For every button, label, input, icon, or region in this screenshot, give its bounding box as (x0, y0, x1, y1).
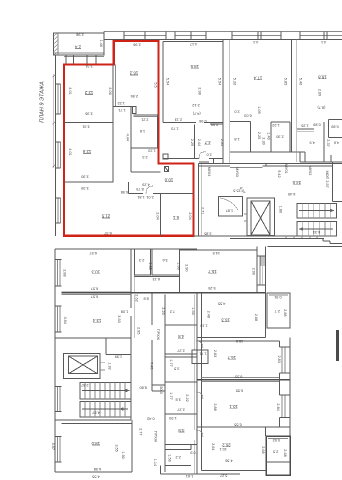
balcony 2.7 (267, 293, 290, 328)
svg-text:2.48: 2.48 (206, 311, 210, 318)
svg-text:4.1: 4.1 (321, 40, 326, 44)
svg-text:1.8: 1.8 (234, 137, 239, 141)
svg-text:МОП 2.57: МОП 2.57 (325, 170, 329, 187)
svg-text:ПРХЖ: ПРХЖ (153, 431, 157, 443)
svg-text:2.21: 2.21 (141, 118, 148, 122)
right facade lower (289, 338, 291, 437)
bottom wall (202, 470, 266, 472)
svg-text:2.27: 2.27 (177, 407, 184, 411)
svg-text:3.39: 3.39 (81, 186, 88, 190)
balcony top-left (54, 33, 105, 55)
svg-text:0.52: 0.52 (273, 438, 280, 442)
wall above room 18.0 (55, 419, 131, 421)
svg-text:(8.7): (8.7) (317, 106, 326, 110)
svg-text:3.6: 3.6 (162, 258, 167, 262)
bottom middle room labels (121, 294, 196, 477)
apartment 17.4 labels (232, 40, 287, 145)
svg-text:6.45: 6.45 (288, 192, 295, 196)
svg-text:8.80: 8.80 (140, 385, 147, 389)
svg-text:2.68: 2.68 (283, 449, 287, 456)
svg-text:1.56: 1.56 (168, 454, 172, 461)
svg-text:1.86: 1.86 (279, 206, 283, 213)
svg-text:1.55: 1.55 (191, 307, 195, 314)
svg-text:3.30: 3.30 (81, 174, 88, 178)
wall below 13.4 (55, 337, 131, 339)
balcony 2.5 bottom (266, 436, 290, 475)
svg-text:3.31: 3.31 (85, 64, 92, 68)
svg-text:1.22: 1.22 (272, 123, 279, 127)
svg-text:2.23: 2.23 (161, 307, 165, 314)
svg-text:2.98: 2.98 (76, 33, 83, 37)
room18.5 bottom wall (163, 122, 196, 124)
svg-text:50.3: 50.3 (159, 386, 163, 393)
hall top wall (113, 106, 133, 108)
red apartment outline (64, 41, 194, 236)
room 15.7 (208, 246, 266, 292)
svg-text:4.01: 4.01 (68, 148, 72, 155)
svg-text:6.58: 6.58 (94, 467, 101, 471)
bathroom column walls (130, 107, 132, 173)
wall 10.1/26.2 (197, 426, 290, 428)
svg-text:1.14: 1.14 (153, 459, 157, 466)
corridor walls (194, 159, 342, 236)
elevator bottom-half (64, 338, 131, 379)
kitchen 4.7 walls (194, 125, 196, 159)
svg-text:8.8: 8.8 (143, 297, 148, 301)
svg-text:2.5: 2.5 (273, 449, 278, 453)
svg-text:3.54: 3.54 (63, 317, 67, 324)
svg-text:3.53: 3.53 (117, 315, 121, 322)
svg-text:4.17: 4.17 (190, 42, 197, 46)
svg-text:6.03: 6.03 (244, 113, 251, 117)
svg-text:5.46: 5.46 (299, 78, 303, 85)
svg-text:2.83: 2.83 (277, 356, 281, 363)
apartment 18.8 walls (297, 120, 342, 162)
svg-text:7.49: 7.49 (150, 362, 154, 369)
svg-text:2.84: 2.84 (276, 403, 280, 410)
right facade upper (265, 293, 267, 338)
svg-text:2.62: 2.62 (134, 294, 138, 301)
svg-text:2.35: 2.35 (220, 139, 224, 146)
svg-text:2.04: 2.04 (188, 212, 192, 219)
svg-text:4.55: 4.55 (218, 302, 225, 306)
svg-text:2.68: 2.68 (283, 309, 287, 316)
windows right facade (281, 347, 283, 373)
apartment 17.4 walls (230, 40, 305, 163)
storage room 1.87 (200, 186, 245, 235)
svg-text:6.57: 6.57 (91, 294, 98, 298)
inter-apartment wall bottom left (55, 249, 266, 472)
svg-text:1.77: 1.77 (169, 392, 173, 399)
svg-text:4.6: 4.6 (334, 141, 339, 145)
svg-text:0.89: 0.89 (331, 124, 338, 128)
svg-text:2.90: 2.90 (252, 268, 256, 275)
svg-text:2.2: 2.2 (176, 455, 181, 459)
svg-text:6.13: 6.13 (153, 277, 160, 281)
balcony door band under balcony (64, 40, 104, 65)
svg-text:4.1: 4.1 (253, 40, 258, 44)
svg-text:6.55: 6.55 (234, 423, 241, 427)
svg-text:2.88: 2.88 (63, 269, 67, 276)
svg-text:1.81: 1.81 (137, 195, 144, 199)
svg-text:9.42: 9.42 (277, 170, 281, 177)
svg-text:2.7: 2.7 (275, 309, 280, 313)
svg-text:2.30: 2.30 (262, 137, 266, 144)
svg-text:1.61: 1.61 (186, 474, 193, 478)
svg-text:2.87: 2.87 (81, 383, 88, 387)
svg-text:0.98: 0.98 (121, 190, 128, 194)
svg-text:2.95: 2.95 (136, 327, 140, 334)
wall room12.2/12.6 (64, 65, 194, 236)
svg-text:0.89: 0.89 (211, 122, 218, 126)
apartment 18.8 labels (299, 40, 340, 147)
left outer wall (54, 55, 57, 472)
stairs top-half flight2 (297, 221, 337, 235)
svg-text:7.2: 7.2 (170, 309, 175, 313)
svg-text:2.04: 2.04 (155, 212, 159, 219)
svg-text:2.77: 2.77 (139, 428, 143, 435)
svg-text:4.01: 4.01 (68, 87, 72, 94)
svg-text:1.87: 1.87 (226, 208, 233, 212)
svg-text:МУ02: МУ02 (308, 166, 312, 176)
svg-text:3.31: 3.31 (82, 124, 89, 128)
left wall windows bottom half (55, 260, 62, 462)
svg-text:2.13: 2.13 (175, 118, 182, 122)
svg-text:2.30: 2.30 (276, 134, 283, 138)
svg-text:4.44: 4.44 (126, 134, 130, 141)
svg-text:1.71: 1.71 (118, 108, 125, 112)
svg-text:2.25: 2.25 (257, 132, 261, 139)
hall bottom wall (129, 193, 143, 195)
svg-text:5.27: 5.27 (220, 473, 227, 477)
svg-text:1.10: 1.10 (200, 323, 207, 327)
window right of 15.7 (259, 256, 261, 285)
svg-text:ПЛАН 9 ЭТАЖА: ПЛАН 9 ЭТАЖА (40, 81, 46, 123)
svg-text:10.1: 10.1 (220, 447, 227, 451)
svg-text:4.55: 4.55 (92, 475, 99, 479)
shaft box (133, 107, 137, 114)
svg-text:МУ01: МУ01 (284, 164, 288, 174)
red apartment labels (68, 43, 192, 235)
svg-text:1.8: 1.8 (140, 129, 145, 133)
svg-text:2.88: 2.88 (213, 403, 217, 410)
svg-text:1.71: 1.71 (199, 351, 206, 355)
wall 16.3/16.7 (197, 337, 265, 339)
top outer wall with windows (104, 32, 342, 40)
room 18.0 right wall (131, 424, 133, 473)
svg-text:1.65: 1.65 (148, 262, 152, 269)
svg-text:3.85: 3.85 (204, 232, 211, 236)
bottom middle small rooms top (134, 249, 188, 293)
svg-text:2.96: 2.96 (131, 94, 138, 98)
wall vertical x113.5 (112, 65, 114, 183)
room 18.0 bottom wall (62, 471, 132, 473)
svg-text:2.3: 2.3 (142, 155, 147, 159)
svg-text:1.40: 1.40 (267, 132, 271, 139)
bottom section top wall (55, 249, 257, 250)
svg-text:2.37: 2.37 (326, 139, 330, 146)
svg-text:1.26: 1.26 (301, 123, 308, 127)
svg-text:3.8: 3.8 (176, 397, 181, 401)
svg-text:0.89: 0.89 (313, 122, 320, 126)
svg-text:1.66: 1.66 (177, 262, 181, 269)
svg-text:ПРХЖ: ПРХЖ (156, 329, 160, 341)
svg-text:1.08: 1.08 (121, 310, 128, 314)
svg-text:6.55: 6.55 (236, 388, 243, 392)
svg-text:0.43: 0.43 (147, 417, 154, 421)
svg-text:2.12: 2.12 (192, 103, 199, 107)
svg-text:6.33: 6.33 (313, 230, 320, 234)
corridor labels (207, 164, 329, 196)
svg-text:1.09: 1.09 (257, 106, 261, 113)
svg-text:(4.7): (4.7) (192, 112, 201, 116)
elevator top-half (244, 198, 283, 236)
svg-text:1.93: 1.93 (169, 416, 176, 420)
section divider band (230, 236, 342, 293)
wall room12.6/21.5 (64, 181, 114, 183)
svg-text:0.98: 0.98 (199, 119, 206, 123)
svg-text:2.98: 2.98 (197, 87, 201, 94)
svg-text:1.50: 1.50 (121, 451, 125, 458)
svg-text:2.0: 2.0 (234, 109, 239, 113)
svg-text:14.5: 14.5 (213, 251, 220, 255)
svg-text:МУ03: МУ03 (235, 167, 239, 177)
svg-text:2.96: 2.96 (133, 43, 140, 47)
svg-text:2.68: 2.68 (261, 446, 265, 453)
svg-text:3.5: 3.5 (174, 366, 179, 370)
svg-text:3.55: 3.55 (114, 444, 118, 451)
bottom-left labels (51, 251, 125, 479)
svg-text:2.27: 2.27 (177, 349, 184, 353)
bottom right labels (199, 295, 287, 477)
svg-text:5.5: 5.5 (154, 82, 158, 87)
svg-text:6.57: 6.57 (90, 251, 97, 255)
svg-text:2.83: 2.83 (213, 350, 217, 357)
room16.2 bottom wall (133, 114, 158, 116)
stairs top-half flight1 (297, 203, 337, 218)
svg-text:3.57: 3.57 (51, 443, 55, 450)
svg-text:8.79: 8.79 (136, 187, 143, 191)
svg-text:6.57: 6.57 (91, 286, 98, 290)
svg-text:2.64: 2.64 (211, 443, 215, 450)
svg-text:2.0: 2.0 (206, 153, 211, 157)
svg-text:4.87: 4.87 (92, 410, 99, 414)
svg-text:1.46: 1.46 (99, 40, 103, 47)
dark bar right edge (336, 330, 339, 361)
apartment 18.5 walls (163, 40, 230, 164)
svg-text:15.5: 15.5 (236, 339, 243, 343)
entry 1.71 box (192, 350, 208, 363)
svg-text:МУ04: МУ04 (207, 167, 211, 177)
svg-text:4.06: 4.06 (108, 87, 112, 94)
svg-text:2.3: 2.3 (139, 258, 144, 262)
svg-text:5.54: 5.54 (218, 78, 222, 85)
svg-text:1.92: 1.92 (108, 362, 112, 369)
svg-text:4.9: 4.9 (310, 141, 315, 145)
svg-text:6.37: 6.37 (104, 231, 111, 235)
svg-text:2.01: 2.01 (146, 195, 153, 199)
svg-text:5.85: 5.85 (283, 78, 287, 85)
svg-text:1.23: 1.23 (148, 148, 155, 152)
svg-text:4.56: 4.56 (225, 458, 232, 462)
svg-text:15.5: 15.5 (233, 188, 240, 192)
stairs bottom-half flight2 (80, 402, 131, 418)
svg-text:5.25: 5.25 (208, 286, 215, 290)
room 10.3 / 13.4 thick wall (62, 292, 266, 294)
door arcs (146, 186, 153, 194)
apartment 18.5 labels (166, 42, 224, 156)
svg-text:2.71: 2.71 (200, 207, 204, 214)
svg-text:5.26: 5.26 (232, 78, 236, 85)
svg-text:1.77: 1.77 (169, 359, 173, 366)
bottom middle corridor walls (152, 293, 240, 474)
svg-text:4.29: 4.29 (142, 183, 149, 187)
svg-text:2.90: 2.90 (185, 264, 189, 271)
svg-text:2.44: 2.44 (197, 139, 201, 146)
svg-text:2.22: 2.22 (185, 394, 189, 401)
shaft box at red step (163, 154, 168, 159)
svg-text:0.91: 0.91 (274, 295, 281, 299)
bottom right column walls (192, 293, 290, 475)
svg-text:2.69: 2.69 (318, 89, 322, 96)
svg-text:1.73: 1.73 (171, 126, 178, 130)
svg-text:5.54: 5.54 (166, 78, 170, 85)
svg-text:1.22: 1.22 (118, 101, 125, 105)
svg-text:6.55: 6.55 (235, 375, 242, 379)
balcony labels (74, 33, 103, 50)
svg-text:2.68: 2.68 (254, 314, 258, 321)
left wall windows top half (56, 84, 61, 223)
stairs bottom-half flight1 (80, 382, 131, 399)
wall 16.7/10.1 thick (197, 379, 290, 381)
wall 21.5/room right (160, 194, 162, 236)
svg-text:3.36: 3.36 (85, 112, 92, 116)
svg-text:2.29: 2.29 (190, 139, 194, 146)
svg-text:0.9: 0.9 (190, 450, 195, 454)
svg-text:1.99: 1.99 (115, 355, 122, 359)
